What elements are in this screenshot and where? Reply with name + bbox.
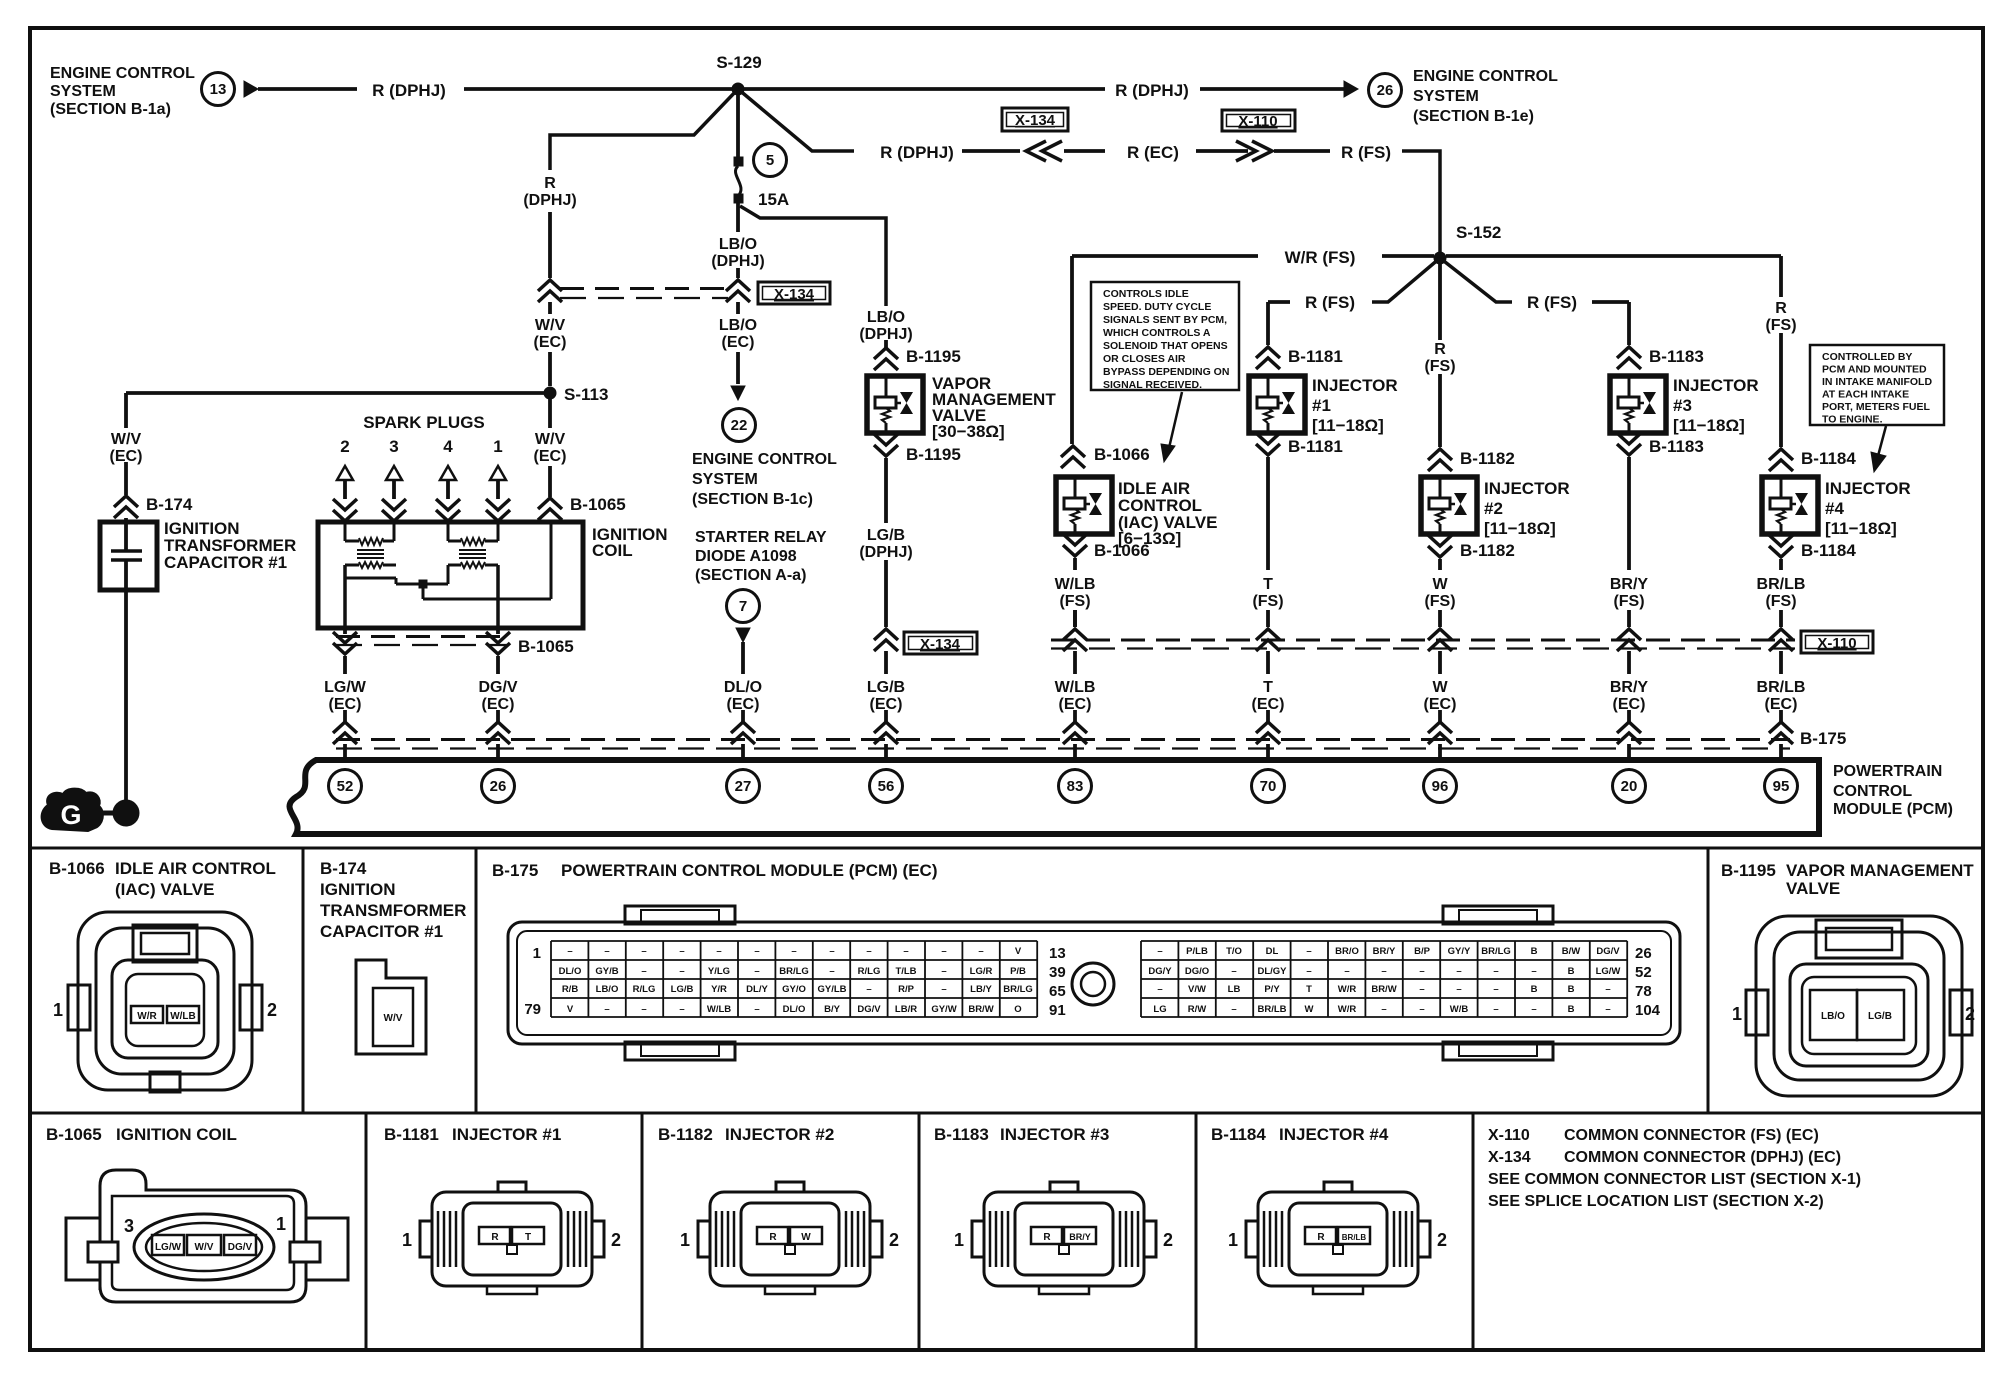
svg-text:–: – — [1456, 984, 1461, 995]
svg-text:W: W — [801, 1232, 811, 1243]
PCM pin 96 — [1424, 770, 1457, 803]
svg-text:R: R — [1434, 341, 1446, 358]
svg-text:INJECTOR #2: INJECTOR #2 — [725, 1125, 834, 1144]
svg-text:#4: #4 — [1825, 499, 1844, 518]
svg-text:R: R — [769, 1232, 777, 1243]
wire DG/V below coil — [496, 628, 500, 634]
wire T (EC) column x=1268 crossing X-110 — [1266, 610, 1270, 627]
svg-text:TO ENGINE.: TO ENGINE. — [1822, 414, 1883, 426]
wire into PCM pin 27 — [741, 710, 745, 722]
svg-text:COIL: COIL — [592, 541, 633, 560]
svg-text:GY/O: GY/O — [782, 984, 806, 995]
svg-text:13: 13 — [210, 81, 227, 98]
svg-text:X-134: X-134 — [920, 636, 961, 653]
svg-text:W: W — [1305, 1004, 1314, 1015]
B-1065 connector drawing — [100, 1170, 306, 1302]
svg-text:B-1195: B-1195 — [906, 445, 961, 464]
wire W/R to IAC — [1070, 256, 1074, 444]
svg-text:B-1181: B-1181 — [384, 1125, 439, 1144]
svg-text:–: – — [641, 946, 646, 957]
svg-text:#1: #1 — [1312, 396, 1331, 415]
svg-text:LG/B: LG/B — [671, 984, 694, 995]
svg-text:W/R: W/R — [1338, 1004, 1357, 1015]
svg-text:–: – — [679, 946, 684, 957]
svg-text:SYSTEM: SYSTEM — [1413, 88, 1479, 105]
svg-text:B-1066: B-1066 — [49, 859, 105, 878]
svg-text:–: – — [754, 946, 759, 957]
fuse 15A — [734, 157, 743, 166]
splice S-129 — [732, 83, 744, 95]
svg-text:3: 3 — [389, 437, 398, 456]
wire into PCM pin 70 — [1266, 710, 1270, 722]
svg-text:96: 96 — [1432, 778, 1449, 795]
svg-text:PORT, METERS FUEL: PORT, METERS FUEL — [1822, 401, 1931, 413]
svg-text:LG: LG — [1153, 1004, 1166, 1015]
svg-text:–: – — [1419, 1004, 1424, 1015]
svg-text:V: V — [567, 1004, 574, 1015]
svg-text:–: – — [941, 946, 946, 957]
wire S-152 to injector 3 — [1440, 258, 1512, 302]
svg-text:R: R — [544, 175, 556, 192]
svg-text:SOLENOID THAT OPENS: SOLENOID THAT OPENS — [1103, 340, 1228, 352]
svg-text:(SECTION B-1a): (SECTION B-1a) — [50, 101, 171, 118]
svg-text:SYSTEM: SYSTEM — [692, 471, 758, 488]
svg-text:B-174: B-174 — [146, 495, 193, 514]
svg-text:91: 91 — [1049, 1002, 1066, 1019]
svg-text:CONTROLLED BY: CONTROLLED BY — [1822, 351, 1912, 363]
wire BR/Y (EC) column x=1629 crossing X-110 — [1627, 610, 1631, 627]
svg-text:1: 1 — [493, 437, 502, 456]
svg-text:B/P: B/P — [1414, 946, 1431, 957]
svg-text:BR/LB: BR/LB — [1757, 576, 1806, 593]
svg-text:DG/V: DG/V — [478, 679, 517, 696]
svg-text:SPEED. DUTY CYCLE: SPEED. DUTY CYCLE — [1103, 301, 1211, 313]
wire W/LB (EC) column x=1075 crossing X-110 — [1073, 610, 1077, 627]
wire S-152 to injector 1 — [1372, 258, 1440, 302]
svg-text:–: – — [941, 984, 946, 995]
injector #1 — [1249, 376, 1305, 433]
svg-text:W/LB: W/LB — [1055, 679, 1096, 696]
svg-text:LG/W: LG/W — [324, 679, 367, 696]
svg-text:B-1065: B-1065 — [570, 495, 626, 514]
svg-text:–: – — [1306, 946, 1311, 957]
svg-text:R: R — [1317, 1232, 1325, 1243]
X-134 dashed bus (top) — [560, 287, 728, 290]
svg-text:B-1066: B-1066 — [1094, 541, 1150, 560]
svg-text:104: 104 — [1635, 1002, 1661, 1019]
svg-text:1: 1 — [402, 1230, 412, 1250]
svg-text:W/LB: W/LB — [170, 1011, 196, 1022]
svg-text:(EC): (EC) — [722, 334, 755, 351]
svg-text:[11−18Ω]: [11−18Ω] — [1484, 519, 1556, 538]
wire BR/LB (EC) column x=1781 crossing X-110 — [1779, 610, 1783, 627]
X-134 in-arrows — [1026, 141, 1062, 161]
arrow into node 26 — [1344, 81, 1358, 97]
svg-text:LB/Y: LB/Y — [970, 984, 992, 995]
PCM pin 26 — [482, 770, 515, 803]
svg-text:P/LB: P/LB — [1186, 946, 1208, 957]
PCM pin grid left — [551, 941, 1037, 1017]
svg-text:SEE COMMON CONNECTOR LIST (SEC: SEE COMMON CONNECTOR LIST (SECTION X-1) — [1488, 1171, 1861, 1188]
svg-text:COMMON CONNECTOR (FS) (EC): COMMON CONNECTOR (FS) (EC) — [1564, 1127, 1819, 1144]
wire capacitor to ground — [124, 560, 128, 801]
X-134 crossing chevrons col 550 — [538, 280, 562, 302]
svg-text:–: – — [1456, 966, 1461, 977]
ignition coil box B-1065 — [318, 522, 583, 628]
arrow from node 13 — [244, 81, 258, 97]
injector #4 column — [1779, 256, 1783, 297]
svg-text:DIODE A1098: DIODE A1098 — [695, 548, 797, 565]
svg-text:X-134: X-134 — [1015, 112, 1056, 129]
injector #3 — [1610, 376, 1666, 433]
svg-text:GY/Y: GY/Y — [1448, 946, 1471, 957]
wire into PCM pin 83 — [1073, 710, 1077, 722]
svg-text:Y/LG: Y/LG — [708, 966, 730, 977]
svg-text:T: T — [1263, 679, 1273, 696]
svg-text:B-1181: B-1181 — [1288, 437, 1343, 456]
svg-text:POWERTRAIN CONTROL MODULE (PCM: POWERTRAIN CONTROL MODULE (PCM) (EC) — [561, 861, 938, 880]
svg-text:GY/LB: GY/LB — [817, 984, 846, 995]
svg-text:B: B — [1531, 946, 1538, 957]
svg-text:(FS): (FS) — [1765, 317, 1796, 334]
svg-text:[11−18Ω]: [11−18Ω] — [1825, 519, 1897, 538]
node 5 circle — [754, 144, 787, 177]
svg-text:LB/O: LB/O — [1821, 1011, 1845, 1022]
svg-text:(SECTION B-1e): (SECTION B-1e) — [1413, 108, 1534, 125]
B-1181 connector drawing — [432, 1192, 592, 1286]
svg-text:R/LG: R/LG — [858, 966, 881, 977]
svg-text:LG/B: LG/B — [1868, 1011, 1892, 1022]
svg-text:39: 39 — [1049, 964, 1066, 981]
svg-text:B-1066: B-1066 — [1094, 445, 1150, 464]
svg-text:–: – — [1231, 1004, 1236, 1015]
wire column 738 LB/O — [736, 203, 740, 232]
svg-text:LB: LB — [1228, 984, 1241, 995]
svg-text:POWERTRAIN: POWERTRAIN — [1833, 763, 1942, 780]
X-110 dashed bus — [1051, 639, 1795, 642]
svg-text:R (DPHJ): R (DPHJ) — [1115, 81, 1189, 100]
svg-text:AT EACH INTAKE: AT EACH INTAKE — [1822, 389, 1909, 401]
svg-text:DG/Y: DG/Y — [1148, 966, 1172, 977]
svg-text:X-110: X-110 — [1238, 113, 1277, 130]
svg-text:W/B: W/B — [1450, 1004, 1469, 1015]
svg-text:GY/W: GY/W — [931, 1004, 956, 1015]
svg-text:LB/R: LB/R — [895, 1004, 917, 1015]
note box: controlled by PCM — [1810, 345, 1944, 425]
svg-text:ENGINE CONTROL: ENGINE CONTROL — [692, 451, 837, 468]
svg-text:IN INTAKE MANIFOLD: IN INTAKE MANIFOLD — [1822, 376, 1932, 388]
wire into PCM pin 96 — [1438, 710, 1442, 722]
svg-text:R (FS): R (FS) — [1305, 293, 1355, 312]
svg-text:B-1195: B-1195 — [1721, 861, 1776, 880]
svg-text:BR/Y: BR/Y — [1610, 679, 1649, 696]
svg-text:IDLE AIR CONTROL: IDLE AIR CONTROL — [115, 859, 276, 878]
B-174 connector drawing — [356, 960, 426, 1054]
arrow below node 7 — [736, 628, 750, 642]
svg-text:DG/V: DG/V — [857, 1004, 881, 1015]
svg-text:LB/O: LB/O — [719, 236, 757, 253]
svg-text:T/LB: T/LB — [895, 966, 916, 977]
svg-text:STARTER RELAY: STARTER RELAY — [695, 529, 827, 546]
svg-text:–: – — [679, 966, 684, 977]
svg-text:COMMON CONNECTOR (DPHJ) (EC): COMMON CONNECTOR (DPHJ) (EC) — [1564, 1149, 1841, 1166]
svg-text:B-1184: B-1184 — [1801, 541, 1856, 560]
svg-text:–: – — [716, 946, 721, 957]
svg-text:–: – — [941, 966, 946, 977]
svg-text:2: 2 — [1965, 1004, 1975, 1024]
svg-text:–: – — [903, 946, 908, 957]
svg-text:BR/Y: BR/Y — [1069, 1232, 1091, 1242]
wire into PCM pin 26 — [496, 710, 500, 722]
injector #4 — [1762, 477, 1818, 534]
svg-text:B-1195: B-1195 — [906, 347, 961, 366]
svg-text:B-1183: B-1183 — [1649, 437, 1704, 456]
wire LG/W below coil — [343, 628, 347, 634]
B-1195 connector drawing — [1756, 916, 1962, 1096]
arrow from note box to injector 4 — [1878, 426, 1886, 456]
B-1066 connector drawing — [78, 912, 252, 1090]
connector B-1195 top — [874, 348, 898, 370]
svg-text:–: – — [754, 966, 759, 977]
svg-text:–: – — [1531, 1004, 1536, 1015]
svg-text:3: 3 — [124, 1216, 134, 1236]
svg-text:CAPACITOR #1: CAPACITOR #1 — [164, 553, 287, 572]
svg-text:INJECTOR: INJECTOR — [1825, 479, 1911, 498]
svg-text:5: 5 — [766, 152, 774, 169]
svg-text:T/O: T/O — [1226, 946, 1242, 957]
svg-text:26: 26 — [1635, 945, 1652, 962]
wire DL/O column — [741, 642, 745, 674]
wire into PCM pin 52 — [343, 710, 347, 722]
X-134 label box — [758, 282, 830, 304]
svg-text:VAPOR MANAGEMENT: VAPOR MANAGEMENT — [1786, 861, 1974, 880]
svg-text:PCM AND MOUNTED: PCM AND MOUNTED — [1822, 364, 1927, 376]
svg-text:–: – — [1419, 984, 1424, 995]
svg-text:DL/O: DL/O — [724, 679, 762, 696]
svg-text:–: – — [1157, 946, 1162, 957]
connector B-1195 bottom — [874, 434, 898, 456]
svg-text:1: 1 — [276, 1214, 286, 1234]
B-1065 dashed bus bottom — [336, 635, 508, 638]
svg-text:B-1065: B-1065 — [518, 637, 574, 656]
svg-text:–: – — [866, 984, 871, 995]
svg-text:BR/LG: BR/LG — [1481, 946, 1511, 957]
svg-text:W/V: W/V — [384, 1013, 403, 1024]
svg-text:–: – — [1493, 1004, 1498, 1015]
svg-text:Y/R: Y/R — [711, 984, 727, 995]
injector #1 column — [1266, 302, 1270, 345]
svg-text:W/V: W/V — [111, 431, 142, 448]
svg-text:–: – — [679, 1004, 684, 1015]
svg-text:INJECTOR #3: INJECTOR #3 — [1000, 1125, 1109, 1144]
connector B-1066 top — [1061, 446, 1085, 468]
svg-text:B-1184: B-1184 — [1801, 449, 1856, 468]
svg-text:B: B — [1531, 984, 1538, 995]
svg-text:26: 26 — [490, 778, 507, 795]
svg-text:R: R — [1775, 300, 1787, 317]
svg-text:B/W: B/W — [1562, 946, 1581, 957]
ground symbol G — [42, 789, 103, 831]
X-134 crossing (lower) — [874, 629, 898, 651]
svg-text:BR/W: BR/W — [1371, 984, 1396, 995]
svg-text:W/LB: W/LB — [1055, 576, 1096, 593]
svg-text:(SECTION A-a): (SECTION A-a) — [695, 567, 806, 584]
svg-text:–: – — [1381, 1004, 1386, 1015]
svg-text:52: 52 — [1635, 964, 1652, 981]
svg-text:–: – — [604, 946, 609, 957]
svg-text:2: 2 — [889, 1230, 899, 1250]
svg-text:#2: #2 — [1484, 499, 1503, 518]
node 7 circle — [727, 590, 760, 623]
svg-text:BR/W: BR/W — [968, 1004, 993, 1015]
svg-text:G: G — [60, 800, 81, 830]
svg-text:15A: 15A — [758, 190, 789, 209]
wire fuse to vapor valve column — [740, 206, 886, 306]
svg-text:P/B: P/B — [1010, 966, 1026, 977]
svg-text:B: B — [1568, 984, 1575, 995]
svg-text:IGNITION: IGNITION — [320, 880, 396, 899]
node 13 circle — [202, 73, 235, 106]
svg-text:52: 52 — [337, 778, 354, 795]
svg-text:1: 1 — [1732, 1004, 1742, 1024]
svg-text:1: 1 — [680, 1230, 690, 1250]
svg-text:DL/Y: DL/Y — [746, 984, 768, 995]
PCM pin 83 — [1059, 770, 1092, 803]
svg-text:–: – — [1231, 966, 1236, 977]
svg-text:83: 83 — [1067, 778, 1084, 795]
svg-text:W: W — [1432, 576, 1448, 593]
wire into PCM pin 56 — [884, 710, 888, 722]
wire S-113 branch to capacitor — [126, 391, 546, 395]
svg-text:–: – — [866, 946, 871, 957]
connector B-1065 into coil — [538, 498, 562, 520]
svg-text:–: – — [1306, 966, 1311, 977]
svg-text:(DPHJ): (DPHJ) — [711, 253, 764, 270]
svg-text:1: 1 — [533, 945, 541, 962]
X-110 out-arrows — [1236, 141, 1272, 161]
svg-text:MODULE (PCM): MODULE (PCM) — [1833, 801, 1953, 818]
svg-text:LB/O: LB/O — [719, 317, 757, 334]
svg-text:–: – — [641, 1004, 646, 1015]
svg-text:2: 2 — [1437, 1230, 1447, 1250]
PCM pin 52 — [329, 770, 362, 803]
svg-text:56: 56 — [878, 778, 895, 795]
PCM pin 56 — [870, 770, 903, 803]
svg-text:DL/GY: DL/GY — [1257, 966, 1287, 977]
svg-text:(FS): (FS) — [1424, 358, 1455, 375]
svg-text:DL/O: DL/O — [559, 966, 582, 977]
PCM pin 95 — [1765, 770, 1798, 803]
svg-text:P/Y: P/Y — [1264, 984, 1280, 995]
arrow into node 22 — [731, 386, 745, 400]
svg-text:BR/O: BR/O — [1335, 946, 1359, 957]
svg-text:B-174: B-174 — [320, 859, 367, 878]
svg-text:T: T — [1306, 984, 1312, 995]
svg-text:X-110: X-110 — [1817, 635, 1856, 652]
svg-text:TRANSMFORMER: TRANSMFORMER — [320, 901, 466, 920]
svg-text:–: – — [567, 946, 572, 957]
svg-text:R (FS): R (FS) — [1527, 293, 1577, 312]
svg-text:B-175: B-175 — [492, 861, 538, 880]
svg-text:R: R — [1043, 1232, 1051, 1243]
svg-text:T: T — [525, 1232, 531, 1243]
svg-text:W/LB: W/LB — [707, 1004, 731, 1015]
svg-text:–: – — [829, 966, 834, 977]
svg-text:INJECTOR: INJECTOR — [1673, 376, 1759, 395]
svg-text:BR/LG: BR/LG — [1003, 984, 1033, 995]
svg-text:LG/B: LG/B — [867, 527, 905, 544]
svg-text:1: 1 — [954, 1230, 964, 1250]
svg-text:LB/O: LB/O — [867, 309, 905, 326]
wire into PCM pin 20 — [1627, 710, 1631, 722]
svg-text:V/W: V/W — [1188, 984, 1206, 995]
svg-text:–: – — [1493, 966, 1498, 977]
svg-text:R (DPHJ): R (DPHJ) — [880, 143, 954, 162]
svg-text:SIGNAL RECEIVED.: SIGNAL RECEIVED. — [1103, 379, 1202, 391]
svg-text:–: – — [1157, 984, 1162, 995]
node 22 circle — [723, 409, 756, 442]
svg-text:BYPASS DEPENDING ON: BYPASS DEPENDING ON — [1103, 366, 1229, 378]
wire: S-129 straight down to fuse — [736, 89, 740, 160]
svg-text:–: – — [1419, 966, 1424, 977]
svg-text:LG/B: LG/B — [867, 679, 905, 696]
svg-text:(DPHJ): (DPHJ) — [523, 192, 576, 209]
svg-text:LG/R: LG/R — [970, 966, 993, 977]
svg-text:–: – — [978, 946, 983, 957]
svg-text:(EC): (EC) — [534, 334, 567, 351]
idle air control valve — [1056, 477, 1112, 534]
svg-text:CONTROLS IDLE: CONTROLS IDLE — [1103, 288, 1189, 300]
svg-text:(FS): (FS) — [1613, 593, 1644, 610]
svg-text:(SECTION B-1c): (SECTION B-1c) — [692, 491, 813, 508]
svg-text:W/V: W/V — [195, 1242, 214, 1253]
ignition transformer capacitor #1 box — [100, 522, 157, 590]
connector B-1066 bottom — [1063, 534, 1087, 556]
coil internals right transformer — [447, 522, 450, 541]
svg-text:22: 22 — [731, 417, 748, 434]
svg-text:R (EC): R (EC) — [1127, 143, 1179, 162]
svg-text:DG/V: DG/V — [228, 1242, 253, 1253]
svg-text:B-1182: B-1182 — [1460, 449, 1515, 468]
injector #2 — [1421, 477, 1477, 534]
wire R (DPHJ) top horizontal — [258, 87, 357, 91]
svg-text:–: – — [641, 966, 646, 977]
svg-text:B-1182: B-1182 — [1460, 541, 1515, 560]
svg-text:ENGINE CONTROL: ENGINE CONTROL — [1413, 68, 1558, 85]
svg-text:–: – — [1381, 966, 1386, 977]
svg-text:95: 95 — [1773, 778, 1790, 795]
svg-text:2: 2 — [267, 1000, 277, 1020]
node 26 circle — [1369, 74, 1402, 107]
svg-text:S-129: S-129 — [716, 53, 761, 72]
svg-text:S-113: S-113 — [564, 385, 608, 404]
svg-text:SPARK PLUGS: SPARK PLUGS — [363, 413, 485, 432]
B-1184 connector drawing — [1258, 1192, 1418, 1286]
svg-text:(IAC) VALVE: (IAC) VALVE — [115, 880, 214, 899]
B-1183 connector drawing — [984, 1192, 1144, 1286]
svg-text:4: 4 — [443, 437, 453, 456]
svg-text:DL/O: DL/O — [783, 1004, 806, 1015]
svg-text:INJECTOR #4: INJECTOR #4 — [1279, 1125, 1389, 1144]
svg-text:O: O — [1014, 1004, 1021, 1015]
svg-text:R/P: R/P — [898, 984, 915, 995]
svg-text:(FS): (FS) — [1765, 593, 1796, 610]
svg-text:26: 26 — [1377, 82, 1394, 99]
svg-text:ENGINE CONTROL: ENGINE CONTROL — [50, 65, 195, 82]
svg-text:–: – — [604, 1004, 609, 1015]
svg-text:13: 13 — [1049, 945, 1066, 962]
X-134 common connector box (top) — [1002, 108, 1068, 131]
